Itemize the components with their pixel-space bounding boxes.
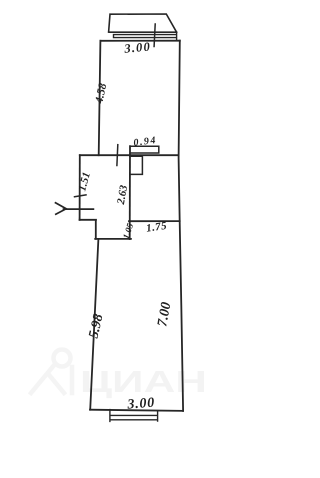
- svg-text:7.00: 7.00: [155, 301, 174, 328]
- wall right side full height: [179, 41, 184, 411]
- watermark CIAN logo: [31, 350, 72, 394]
- wall left of main room: [99, 41, 101, 155]
- svg-text:ЦИАН: ЦИАН: [80, 364, 207, 399]
- small duct box below wall: [130, 156, 143, 174]
- svg-text:3.00: 3.00: [123, 39, 152, 55]
- svg-text:4.58: 4.58: [93, 82, 109, 105]
- wall bottom of lower room: [90, 410, 183, 411]
- wall top of lower room right part: [129, 220, 180, 222]
- svg-text:5.98: 5.98: [87, 313, 107, 340]
- svg-text:2.63: 2.63: [115, 184, 130, 207]
- wall vertical hall right: [129, 146, 131, 239]
- svg-text:3.00: 3.00: [126, 396, 156, 413]
- entrance arrow shaft: [64, 208, 94, 210]
- wall left of entry alcove: [79, 155, 81, 220]
- dimension tick mid wall: [116, 145, 119, 166]
- entry door band bottom: [110, 410, 158, 422]
- closet 0.94: [130, 146, 159, 153]
- svg-text:1.05: 1.05: [121, 222, 136, 241]
- balcony window band: [114, 32, 177, 40]
- balcony outline: [109, 14, 177, 32]
- wall between room and hall: [80, 154, 179, 156]
- dimension tick 3.00 top: [154, 24, 155, 47]
- wall hall bottom step: [80, 220, 131, 239]
- wall left of lower room: [90, 239, 98, 410]
- dimension tick 1.51: [75, 195, 87, 197]
- wall top of main room: [100, 40, 179, 42]
- svg-text:1.51: 1.51: [76, 171, 93, 193]
- entrance arrow: [56, 203, 67, 214]
- svg-text:1.75: 1.75: [145, 220, 167, 235]
